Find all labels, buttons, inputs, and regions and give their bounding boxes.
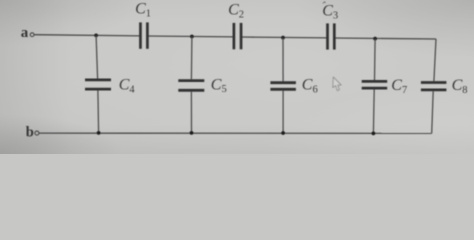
- wire top rail segment a to C1: [34, 35, 140, 36]
- terminal b circle: [35, 131, 39, 135]
- wire C4 lower: [97, 90, 100, 132]
- node bottom of C6: [281, 131, 285, 135]
- wire C5 upper: [190, 37, 193, 80]
- node bottom of C4: [97, 131, 101, 135]
- wire top rail segment C3 to top-right corner: [334, 38, 436, 39]
- node bottom of C5: [190, 131, 194, 135]
- capacitor C2: [234, 23, 241, 49]
- wire C7 lower: [372, 89, 375, 133]
- wire C4 upper: [96, 35, 98, 78]
- capacitor C3: [328, 23, 335, 49]
- wire bottom rail: [39, 132, 432, 134]
- node top of C6: [281, 36, 285, 40]
- photo background: [0, 0, 474, 154]
- node top of C7: [373, 37, 377, 41]
- wire top rail segment C2 to C3: [241, 36, 327, 39]
- node top of C4: [94, 34, 98, 38]
- capacitor C6: [270, 83, 296, 90]
- wire right edge upper (top corner to C8): [434, 39, 436, 81]
- capacitor C7: [362, 81, 388, 88]
- terminal a circle: [30, 33, 34, 37]
- node bottom of C7: [372, 132, 376, 136]
- wire C5 lower: [190, 92, 192, 133]
- wire C6 upper: [282, 38, 284, 82]
- wire right edge lower (C8 to bottom corner): [432, 91, 434, 133]
- capacitor C1: [140, 22, 147, 48]
- wire top rail segment C1 to C2: [147, 35, 234, 38]
- capacitor C5: [178, 81, 204, 91]
- svg-text:a: a: [21, 25, 29, 41]
- wire C6 lower: [282, 91, 284, 133]
- svg-text:b: b: [26, 124, 34, 140]
- mouse cursor: [333, 77, 342, 91]
- node top of C5: [190, 35, 194, 39]
- capacitor C4: [85, 80, 111, 89]
- capacitor C8: [421, 83, 447, 90]
- wire C7 upper: [374, 39, 377, 81]
- stray tick above C3: [323, 2, 326, 4]
